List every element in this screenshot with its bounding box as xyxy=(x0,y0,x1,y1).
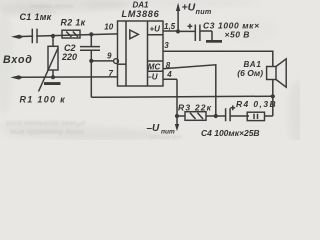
svg-text:–U: –U xyxy=(147,73,157,82)
svg-text:С1 1мк: С1 1мк xyxy=(20,12,52,22)
svg-text:–U: –U xyxy=(147,123,161,134)
svg-text:10: 10 xyxy=(104,23,113,32)
svg-text:7: 7 xyxy=(109,69,114,78)
junction R1 bottom xyxy=(51,75,55,79)
svg-text:3: 3 xyxy=(164,41,169,50)
paper background xyxy=(0,0,300,140)
svg-text:4: 4 xyxy=(166,70,172,79)
svg-text:9: 9 xyxy=(107,52,112,61)
ground wire pin7 xyxy=(17,76,118,78)
C4 plus sign xyxy=(230,105,235,110)
input arrow xyxy=(11,35,24,39)
wire to pin 9 xyxy=(91,60,114,62)
output wire pin 3 xyxy=(163,51,273,66)
inversion circle pin 9 xyxy=(114,59,119,64)
capacitor C3 xyxy=(178,30,195,32)
capacitor C1 xyxy=(32,29,37,44)
amplifier triangle xyxy=(130,30,139,39)
svg-text:+U: +U xyxy=(182,2,196,14)
ground bar C3 xyxy=(206,40,222,43)
R2 power marks xyxy=(66,32,78,37)
resistor R4 xyxy=(247,112,264,120)
svg-text:апсо ткмыслм ованمя: апсо ткмыслм ованمя xyxy=(6,120,86,127)
svg-text:(6 Ом): (6 Ом) xyxy=(237,68,263,78)
svg-text:DA1: DA1 xyxy=(133,0,150,9)
svg-text:С4 100мк×25В: С4 100мк×25В xyxy=(201,128,260,138)
resistor R3 xyxy=(177,115,185,117)
C3 plus sign xyxy=(188,24,193,29)
svg-text:1,5: 1,5 xyxy=(164,22,176,31)
capacitor C4 xyxy=(216,115,226,117)
svg-text:R4 0,3В: R4 0,3В xyxy=(236,99,277,109)
resistor R2 xyxy=(62,30,80,38)
svg-text:МС: МС xyxy=(148,63,161,72)
svg-text:пит: пит xyxy=(196,7,212,16)
capacitor C2 xyxy=(90,34,92,46)
svg-text:пит: пит xyxy=(161,128,175,135)
mute wire pin 8 xyxy=(163,65,216,116)
R1 wiper diagonal xyxy=(39,48,59,92)
junction -U / R3 xyxy=(175,114,179,118)
svg-text:R2 1к: R2 1к xyxy=(61,17,86,27)
junction speaker/bus xyxy=(271,94,275,98)
svg-text:LM3886: LM3886 xyxy=(122,9,160,19)
svg-text:ныв прσжектφ πωхи: ныв прσжектφ πωхи xyxy=(10,129,85,136)
node junction C1/R1 xyxy=(51,34,55,38)
loudspeaker BA1 xyxy=(272,80,274,97)
pin 1,5 supply wire xyxy=(163,30,178,32)
svg-text:8: 8 xyxy=(166,61,171,70)
svg-text:+U: +U xyxy=(150,25,161,34)
supply wire pin 4 xyxy=(163,79,177,127)
ground bar under R1 xyxy=(44,82,61,85)
junction C2/pin9 xyxy=(89,59,93,63)
input signal wire xyxy=(16,34,118,37)
op-amp U1 DA1 LM3886 body xyxy=(118,21,164,86)
svg-text:220: 220 xyxy=(61,52,77,62)
svg-text:R3 22к: R3 22к xyxy=(178,103,212,113)
node junction R2/C2 xyxy=(89,32,93,36)
-Upit arrow xyxy=(175,124,179,131)
svg-text:тℓании жηοгο: тℓании жηοгο xyxy=(30,4,73,10)
svg-text:R1 100 к: R1 100 к xyxy=(20,95,66,105)
svg-text:Вход: Вход xyxy=(3,54,33,66)
ground bus xyxy=(91,96,272,97)
svg-text:×50 В: ×50 В xyxy=(225,29,250,39)
ground arrow xyxy=(11,75,24,79)
+Upit arrow xyxy=(177,11,179,32)
potentiometer R1 xyxy=(52,36,54,46)
+U junction xyxy=(176,29,180,33)
junction R3/C4/mute xyxy=(214,114,218,118)
